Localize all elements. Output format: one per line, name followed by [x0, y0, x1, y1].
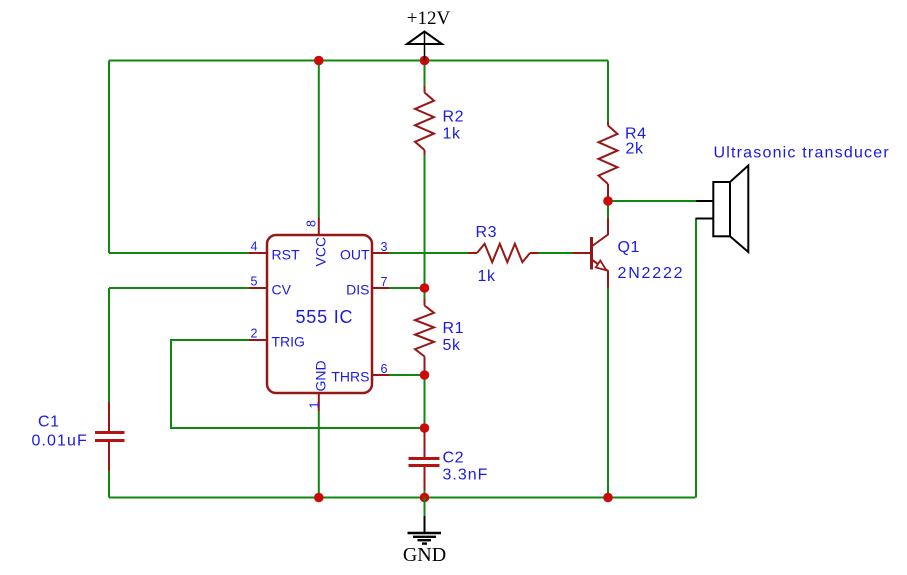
- svg-text:1k: 1k: [478, 268, 496, 285]
- svg-text:GND: GND: [313, 360, 329, 391]
- svg-text:VCC: VCC: [313, 237, 329, 267]
- svg-text:1: 1: [308, 402, 322, 409]
- wire OUT to R3: [389, 252, 468, 254]
- wire TRIG loop: [171, 340, 425, 428]
- svg-text:7: 7: [381, 275, 388, 289]
- wire top rail to R4: [607, 61, 609, 123]
- wire C2 bottom: [424, 490, 426, 498]
- pin 6 stub THRS: [372, 362, 389, 376]
- svg-text:Ultrasonic transducer: Ultrasonic transducer: [714, 145, 890, 162]
- wire left vertical to RST: [108, 61, 110, 254]
- svg-text:8: 8: [305, 220, 319, 227]
- wire transducer bottom to ground rail: [695, 219, 697, 498]
- wire VCC riser: [318, 61, 320, 218]
- capacitor C1: [32, 402, 125, 471]
- wire DIS junction to R1: [424, 288, 426, 299]
- pin 4 stub RST: [249, 240, 267, 254]
- wire THRS to junction: [389, 374, 425, 376]
- junction node collector: [603, 196, 613, 206]
- wire GND riser: [318, 411, 320, 498]
- svg-text:THRS: THRS: [331, 369, 369, 385]
- wire CV horizontal: [109, 287, 249, 289]
- svg-text:Q1: Q1: [618, 239, 641, 256]
- wire C1 bottom to ground rail: [108, 471, 110, 498]
- wire collector junction to transducer top: [608, 200, 696, 202]
- svg-text:DIS: DIS: [346, 282, 369, 298]
- svg-text:CV: CV: [272, 282, 292, 298]
- svg-text:2k: 2k: [626, 141, 644, 158]
- svg-text:C1: C1: [38, 414, 60, 431]
- wire DIS to junction: [389, 287, 425, 289]
- pin 3 stub OUT: [372, 240, 389, 254]
- transducer SP1: [696, 145, 890, 253]
- pin 7 stub DIS: [372, 275, 389, 289]
- junction node DIS: [420, 283, 430, 293]
- pin 1 stub GND: [308, 393, 322, 411]
- junction node THRS: [420, 370, 430, 380]
- wire top rail: [109, 60, 608, 62]
- junction node GND rail emitter: [603, 493, 613, 503]
- svg-text:4: 4: [251, 240, 258, 254]
- junction node GND rail C2: [420, 493, 430, 503]
- svg-text:3: 3: [381, 240, 388, 254]
- svg-text:GND: GND: [403, 544, 446, 566]
- resistor R2: [415, 86, 464, 155]
- wire CV down to C1: [108, 288, 110, 402]
- pin 2 stub TRIG: [249, 327, 267, 341]
- svg-text:5: 5: [251, 275, 258, 289]
- svg-text:2N2222: 2N2222: [618, 265, 685, 282]
- transistor Q1: [573, 218, 685, 288]
- svg-text:2: 2: [251, 327, 258, 341]
- svg-text:1k: 1k: [443, 126, 461, 143]
- junction node top +12V: [420, 56, 430, 66]
- junction node TRIG-C2: [420, 423, 430, 433]
- svg-text:R3: R3: [476, 224, 498, 241]
- junction node GND rail left: [314, 493, 324, 503]
- svg-text:5k: 5k: [443, 337, 461, 354]
- wire R3 to Q1 base: [539, 252, 573, 254]
- wire +12V to R2: [424, 61, 426, 87]
- wire RST horizontal: [109, 252, 249, 254]
- svg-text:555 IC: 555 IC: [296, 307, 354, 327]
- IC U1 555 body: [267, 235, 372, 393]
- ground symbol: [403, 498, 446, 567]
- wire R2 bottom to DIS junction: [424, 155, 426, 288]
- svg-text:TRIG: TRIG: [272, 334, 305, 350]
- junction node top VCC riser: [314, 56, 324, 66]
- resistor R1: [415, 299, 464, 371]
- wire emitter to ground rail: [607, 288, 609, 498]
- wire R4 junction to collector: [607, 201, 609, 218]
- svg-text:+12V: +12V: [407, 8, 451, 29]
- wire bottom ground rail: [109, 497, 696, 499]
- power +12V symbol: [407, 8, 451, 61]
- wire R1 bottom to THRS and C2: [424, 371, 426, 428]
- svg-text:3.3nF: 3.3nF: [443, 467, 489, 484]
- pin 5 stub CV: [249, 275, 267, 289]
- svg-text:C2: C2: [443, 450, 465, 467]
- svg-text:R2: R2: [443, 109, 465, 126]
- resistor R4: [599, 122, 647, 201]
- pin 8 stub VCC: [305, 218, 319, 236]
- svg-text:R1: R1: [443, 320, 465, 337]
- svg-text:6: 6: [381, 362, 388, 376]
- capacitor C2: [409, 428, 489, 490]
- resistor R3: [468, 224, 539, 285]
- svg-text:0.01uF: 0.01uF: [32, 433, 88, 450]
- svg-text:RST: RST: [272, 247, 300, 263]
- svg-text:OUT: OUT: [340, 247, 370, 263]
